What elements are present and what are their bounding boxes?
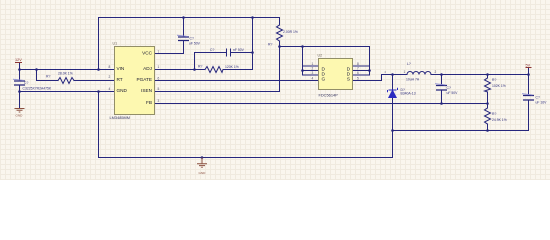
svg-text:C3225X7R2A475K: C3225X7R2A475K xyxy=(23,87,52,91)
svg-text:102K 1%: 102K 1% xyxy=(492,84,506,88)
svg-text:S: S xyxy=(347,76,350,81)
svg-text:12V: 12V xyxy=(15,58,22,62)
svg-text:1: 1 xyxy=(158,65,160,69)
svg-text:FDC5614P: FDC5614P xyxy=(319,93,339,98)
svg-text:R?: R? xyxy=(46,75,50,79)
svg-text:6: 6 xyxy=(158,77,160,81)
svg-text:RT: RT xyxy=(117,77,123,82)
svg-text:LM3485MM: LM3485MM xyxy=(110,115,131,120)
svg-text:1: 1 xyxy=(312,62,314,66)
svg-text:1: 1 xyxy=(404,70,406,74)
svg-text:uF 16V: uF 16V xyxy=(536,101,548,105)
svg-text:5: 5 xyxy=(158,87,160,91)
svg-text:nF 50V: nF 50V xyxy=(233,48,245,52)
svg-text:ISEN: ISEN xyxy=(141,88,152,93)
svg-text:3: 3 xyxy=(158,99,160,103)
svg-text:VIN: VIN xyxy=(117,66,125,71)
svg-text:120K 1%: 120K 1% xyxy=(225,65,239,69)
svg-text:FB: FB xyxy=(146,100,152,105)
svg-text:C?: C? xyxy=(190,37,194,41)
svg-text:4: 4 xyxy=(312,77,314,81)
svg-text:6: 6 xyxy=(357,71,359,75)
svg-text:GND: GND xyxy=(199,171,207,175)
svg-text:C?: C? xyxy=(447,86,451,90)
svg-text:GND: GND xyxy=(117,88,128,93)
svg-text:10uH 7A: 10uH 7A xyxy=(406,78,420,82)
svg-text:7: 7 xyxy=(158,50,160,54)
svg-text:B340A-13: B340A-13 xyxy=(401,92,416,96)
svg-text:2: 2 xyxy=(109,75,111,79)
svg-text:uF 50V: uF 50V xyxy=(447,91,459,95)
svg-text:PGATE: PGATE xyxy=(136,77,152,82)
svg-text:U1: U1 xyxy=(113,42,118,46)
svg-text:5V: 5V xyxy=(526,64,531,68)
svg-text:3: 3 xyxy=(312,71,314,75)
svg-text:2: 2 xyxy=(385,70,387,74)
svg-text:C?: C? xyxy=(210,48,214,52)
svg-text:C?: C? xyxy=(536,96,540,100)
svg-text:2: 2 xyxy=(312,67,314,71)
svg-text:ADJ: ADJ xyxy=(143,66,152,71)
svg-text:8: 8 xyxy=(109,65,111,69)
svg-text:VCC: VCC xyxy=(142,50,153,55)
svg-text:R?: R? xyxy=(492,78,496,82)
svg-text:4: 4 xyxy=(109,87,111,91)
svg-text:R?: R? xyxy=(492,112,496,116)
svg-text:GND: GND xyxy=(16,114,24,118)
svg-text:R?: R? xyxy=(268,43,272,47)
svg-text:8: 8 xyxy=(357,62,359,66)
svg-text:R?: R? xyxy=(198,65,202,69)
svg-text:2.00R 1%: 2.00R 1% xyxy=(283,30,298,34)
svg-text:24.9K 1%: 24.9K 1% xyxy=(492,118,507,122)
svg-text:2: 2 xyxy=(435,70,437,74)
svg-text:uF 50V: uF 50V xyxy=(189,42,201,46)
svg-text:U2: U2 xyxy=(318,54,323,58)
svg-text:G: G xyxy=(322,76,326,81)
svg-text:28.0K 1%: 28.0K 1% xyxy=(58,72,73,76)
svg-text:C?: C? xyxy=(24,81,28,85)
svg-text:5: 5 xyxy=(357,77,359,81)
svg-text:7: 7 xyxy=(357,67,359,71)
svg-text:L?: L? xyxy=(407,62,411,66)
